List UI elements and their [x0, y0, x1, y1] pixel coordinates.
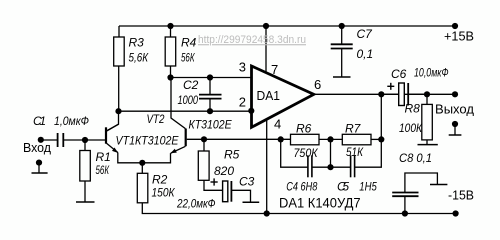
wire R2 bottom lead and -15V rail — [142, 203, 455, 214]
wire R5 top lead — [203, 139, 205, 151]
capacitor C7 — [331, 44, 353, 48]
capacitor C6 (polarized) — [399, 83, 409, 106]
junction dot R3 collector node — [115, 108, 121, 114]
junction dot emitters R2 — [139, 160, 145, 166]
svg-text:C2: C2 — [183, 78, 199, 92]
wire pin 4 to negative rail — [266, 119, 268, 214]
wire R8 top lead — [426, 94, 428, 104]
junction dot C1-R1-base — [82, 137, 88, 143]
resistor R4 — [165, 37, 176, 66]
wire feedback from output node — [380, 94, 382, 139]
ground bar input — [32, 172, 48, 174]
op-amp DA1 — [252, 66, 314, 127]
svg-text:1000: 1000 — [178, 93, 199, 107]
capacitor C1 — [58, 133, 64, 147]
svg-text:56К: 56К — [181, 51, 195, 65]
transistor VT1 — [106, 124, 119, 153]
wire C2 bottom lead — [209, 99, 211, 111]
svg-text:100К: 100К — [399, 121, 423, 135]
wire R4 bottom lead — [170, 66, 172, 78]
junction dot pin4 rail — [264, 210, 270, 216]
wire C6 right lead — [408, 93, 427, 95]
svg-text:C8 0,1: C8 0,1 — [399, 151, 432, 165]
wire C4 to node B leg — [312, 166, 350, 168]
ground bar R1 — [76, 201, 95, 203]
svg-text:DA1: DA1 — [257, 88, 281, 103]
resistor R2 — [137, 173, 148, 203]
terminal dot +15V — [452, 23, 458, 29]
svg-text:R4: R4 — [181, 36, 197, 50]
resistor R5 — [198, 151, 209, 180]
wire C2 top lead — [209, 78, 211, 95]
wire R4 node down to VT2 collector — [171, 78, 185, 129]
wire R3 bottom lead to node — [118, 66, 120, 111]
wire R6 right lead — [319, 138, 342, 140]
terminal dot output — [452, 91, 458, 97]
wire C3 right plate to common — [232, 190, 251, 202]
capacitor C3 (polarized) — [223, 181, 232, 202]
svg-text:R5: R5 — [224, 148, 240, 162]
wire VT2 base to feedback node — [187, 138, 291, 140]
svg-text:R6: R6 — [296, 122, 312, 136]
wire C8 top lead to common — [405, 173, 438, 192]
svg-text:4: 4 — [274, 117, 281, 132]
transistor VT2 — [170, 129, 185, 154]
svg-text:R7: R7 — [345, 122, 362, 136]
wire input ground stem — [38, 163, 40, 173]
svg-text:DA1 К140УД7: DA1 К140УД7 — [279, 196, 361, 211]
junction dot node B lower — [327, 164, 333, 170]
junction dot R4 top — [167, 23, 173, 29]
capacitor C4 — [308, 155, 312, 177]
junction dot pin7 rail — [263, 23, 269, 29]
svg-text:1Н5: 1Н5 — [359, 179, 377, 193]
wire R3 top lead — [118, 26, 120, 37]
capacitor C5 — [351, 155, 355, 177]
svg-text:0,1: 0,1 — [357, 47, 374, 61]
wire VT1 collector rail to pin 2 — [119, 110, 252, 112]
svg-text:22,0мкФ: 22,0мкФ — [176, 197, 216, 211]
wire VT2 emitter run — [142, 153, 170, 163]
resistor R1 — [80, 151, 91, 182]
svg-text:Вход: Вход — [23, 141, 52, 155]
wire pin 7 from rail — [265, 26, 267, 72]
terminal dot input — [38, 137, 44, 143]
wire R4 top lead — [170, 26, 172, 37]
capacitor C2 — [199, 95, 222, 99]
wire C7 top lead — [341, 26, 343, 44]
terminal dot -15V — [453, 210, 459, 216]
svg-text:820: 820 — [214, 164, 234, 178]
junction dot node B — [327, 136, 333, 142]
wire C5 to node C leg — [355, 139, 381, 167]
svg-text:6: 6 — [314, 77, 321, 92]
terminal dot output ground — [452, 121, 458, 127]
svg-text:R3: R3 — [129, 36, 145, 50]
svg-text:2: 2 — [239, 95, 246, 110]
svg-text:R2: R2 — [152, 173, 168, 187]
svg-text:7: 7 — [271, 62, 278, 77]
svg-text:C3: C3 — [239, 175, 255, 189]
svg-text:3: 3 — [239, 60, 246, 75]
wire C1 to VT1 base — [64, 139, 105, 141]
ground bar C7 — [333, 76, 351, 78]
capacitor C8 — [392, 193, 418, 197]
svg-text:1,0мкФ: 1,0мкФ — [54, 114, 89, 128]
svg-text:C1: C1 — [33, 114, 46, 128]
wire R1 top lead — [84, 140, 86, 151]
junction dot output feedback — [378, 91, 384, 97]
svg-text:C5: C5 — [337, 179, 349, 193]
wire input to C1 — [41, 139, 57, 141]
ground bar output — [449, 134, 462, 136]
junction dot R8 top — [424, 91, 430, 97]
terminal dot input ground — [36, 160, 42, 166]
svg-text:+15В: +15В — [444, 30, 474, 44]
ground bar C3 — [243, 201, 260, 203]
wire R2 top lead — [141, 163, 143, 174]
svg-text:R1: R1 — [96, 150, 111, 164]
svg-text:R8: R8 — [405, 102, 421, 116]
wire VT1 collector — [107, 111, 119, 131]
ground bar C8 — [430, 184, 447, 186]
svg-text:C4 6Н8: C4 6Н8 — [286, 179, 317, 193]
wire node B vertical link — [330, 139, 332, 167]
svg-text:750К: 750К — [294, 146, 319, 160]
wire R5 bottom lead to C3 — [204, 180, 222, 190]
svg-text:http://299792458.3dn.ru: http://299792458.3dn.ru — [198, 34, 306, 46]
junction dot C2 top — [207, 74, 213, 80]
plus sign C6 — [387, 83, 394, 90]
resistor R8 — [422, 104, 433, 139]
junction dot C2 bottom — [207, 108, 213, 114]
plus sign C3 — [211, 178, 218, 185]
junction dot node A — [278, 136, 284, 142]
wire +15V top rail — [119, 25, 455, 27]
junction dot R4 pin3 node — [167, 74, 173, 80]
resistor R3 — [114, 37, 125, 66]
ground bar R8 — [418, 144, 438, 146]
wire output ground stem — [454, 124, 456, 135]
wire R8 bottom lead to common — [426, 140, 428, 145]
svg-text:10,0мкФ: 10,0мкФ — [414, 66, 449, 80]
wire VT1 emitter run — [118, 153, 143, 163]
svg-text:5,6К: 5,6К — [129, 51, 149, 65]
wire pin 3 input — [171, 77, 252, 79]
wire C7 bottom lead to common — [341, 49, 343, 77]
junction dot R5 top — [201, 136, 207, 142]
svg-text:56К: 56К — [96, 163, 110, 177]
svg-text:C7: C7 — [357, 27, 374, 41]
wire C6 left lead — [381, 93, 398, 95]
svg-text:-15В: -15В — [448, 189, 474, 203]
wire R7 right lead — [371, 138, 381, 140]
svg-text:C6: C6 — [391, 67, 407, 81]
junction dot pin 2 — [248, 108, 254, 114]
wire node A down leg — [281, 139, 308, 167]
wire R1 bottom lead — [84, 181, 86, 202]
junction dot node C — [378, 136, 384, 142]
svg-text:Выход: Выход — [435, 103, 475, 117]
resistor R7 — [342, 134, 371, 145]
svg-text:VT1КТ3102Е: VT1КТ3102Е — [116, 134, 180, 148]
svg-text:VT2: VT2 — [147, 112, 165, 126]
junction dot C7 rail — [339, 23, 345, 29]
svg-text:150К: 150К — [152, 186, 176, 200]
junction dot C8 rail — [402, 210, 408, 216]
wire pin 6 output — [315, 93, 456, 95]
svg-text:КТ3102Е: КТ3102Е — [189, 117, 233, 131]
wire C8 bottom lead — [404, 197, 406, 214]
svg-text:51К: 51К — [346, 145, 364, 159]
resistor R6 — [291, 134, 320, 145]
